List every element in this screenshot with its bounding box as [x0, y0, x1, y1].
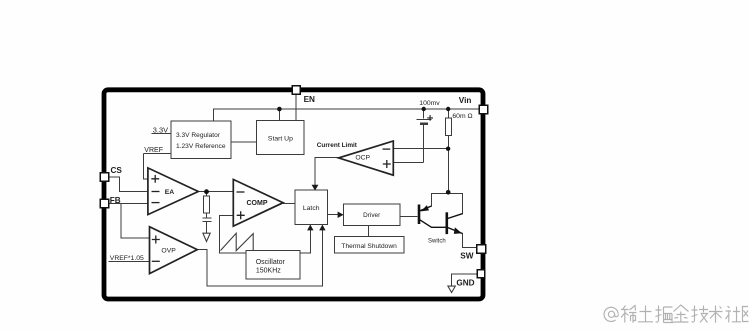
- svg-text:Vin: Vin: [459, 96, 472, 105]
- svg-text:EA: EA: [165, 189, 175, 196]
- svg-text:VREF*1.05: VREF*1.05: [110, 255, 144, 262]
- svg-text:SW: SW: [460, 252, 473, 261]
- svg-text:1.23V Reference: 1.23V Reference: [176, 143, 226, 150]
- svg-text:Latch: Latch: [303, 205, 320, 212]
- svg-text:OVP: OVP: [161, 247, 176, 254]
- svg-text:60m Ω: 60m Ω: [452, 113, 472, 120]
- svg-text:Current Limit: Current Limit: [317, 142, 358, 149]
- svg-text:Start Up: Start Up: [268, 135, 293, 142]
- svg-text:3.3V Regulator: 3.3V Regulator: [176, 132, 221, 139]
- svg-text:CS: CS: [111, 166, 123, 175]
- svg-text:Thermal Shutdown: Thermal Shutdown: [341, 243, 397, 250]
- svg-text:Driver: Driver: [363, 212, 381, 219]
- svg-text:GND: GND: [456, 278, 474, 287]
- svg-text:COMP: COMP: [247, 200, 268, 207]
- svg-text:Switch: Switch: [428, 238, 446, 244]
- svg-text:100mv: 100mv: [419, 100, 440, 107]
- svg-text:EN: EN: [304, 95, 315, 104]
- svg-text:3.3V: 3.3V: [153, 125, 168, 134]
- svg-text:OCP: OCP: [355, 154, 370, 161]
- svg-text:Oscillator: Oscillator: [256, 259, 286, 266]
- svg-text:FB: FB: [110, 196, 121, 205]
- svg-text:VREF: VREF: [144, 147, 163, 154]
- svg-text:150KHz: 150KHz: [256, 267, 281, 274]
